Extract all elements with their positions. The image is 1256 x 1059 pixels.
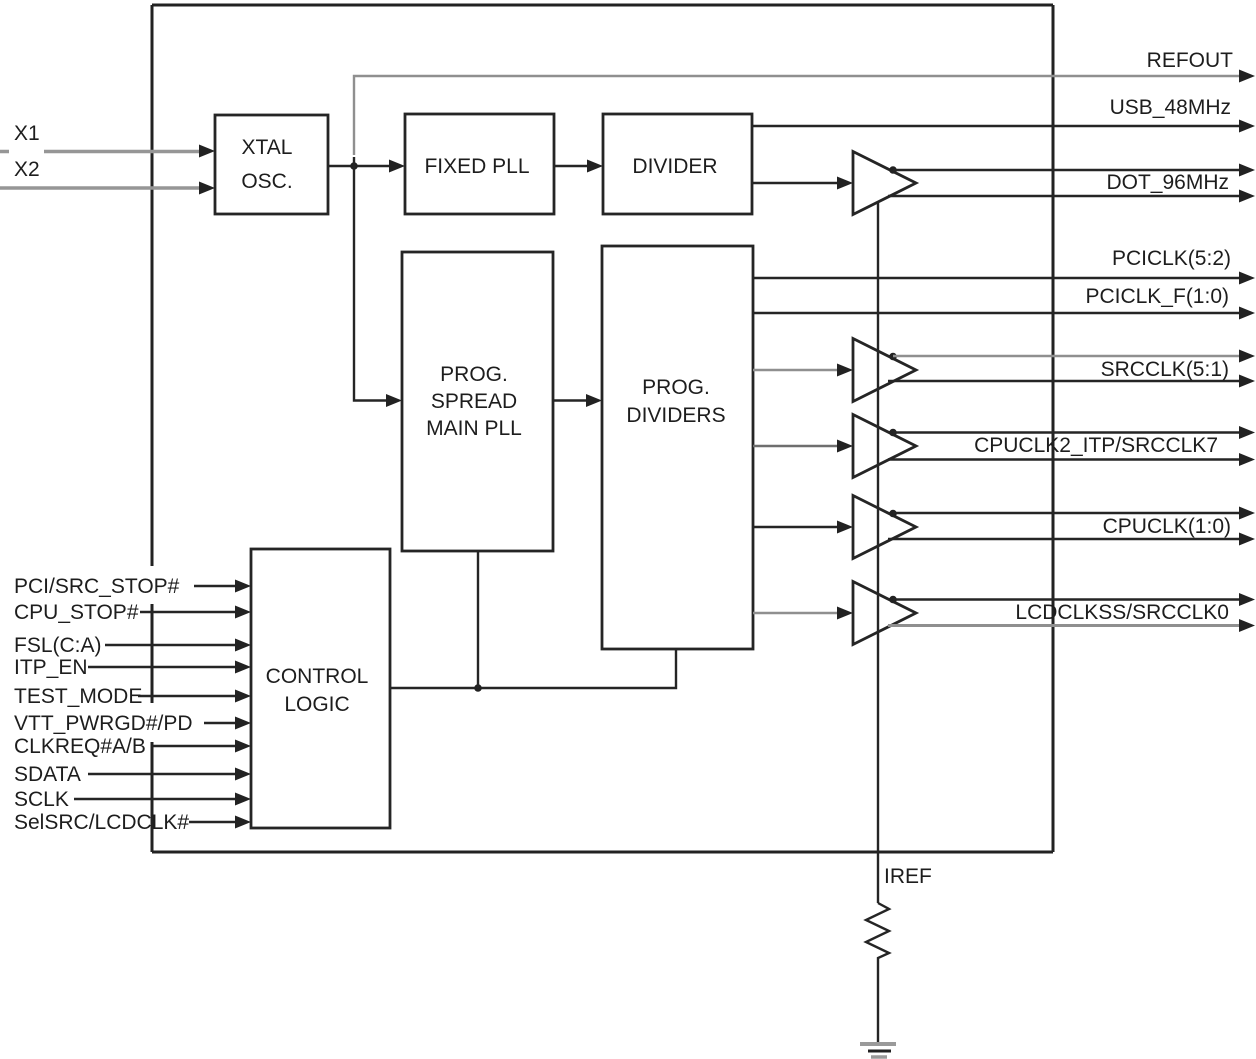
wire TEST_MODE input xyxy=(138,690,251,703)
label PROG SPREAD MAIN PLL xyxy=(426,363,522,440)
buffer U4 CPUCLK xyxy=(853,496,916,559)
wire SRCCLK(5:1) top output (grey) xyxy=(893,350,1255,363)
wire X2 input xyxy=(0,182,215,195)
svg-text:PCICLK_F(1:0): PCICLK_F(1:0) xyxy=(1085,285,1229,308)
svg-text:USB_48MHz: USB_48MHz xyxy=(1110,96,1231,119)
block PROG SPREAD MAIN PLL xyxy=(402,252,553,551)
node dot U2 output tap xyxy=(889,353,897,361)
wire junction to PROG SPREAD MAIN PLL xyxy=(354,157,402,407)
wire FSL(C:A) input xyxy=(105,639,251,652)
svg-text:FSL(C:A): FSL(C:A) xyxy=(14,634,102,657)
wire REFOUT (grey riser + horizontal) xyxy=(354,70,1255,156)
wire CLKREQ#A/B input xyxy=(153,740,251,753)
node dot U1 output tap xyxy=(889,166,897,174)
svg-text:PCI/SRC_STOP#: PCI/SRC_STOP# xyxy=(14,575,180,598)
node junction XTAL output xyxy=(350,162,358,170)
wire FIXED PLL to DIVIDER xyxy=(554,160,603,173)
svg-text:CONTROL: CONTROL xyxy=(266,665,369,688)
wire LCDCLKSS bottom output (grey) xyxy=(888,619,1255,632)
node dot U4 output tap xyxy=(889,510,897,518)
svg-text:SRCCLK(5:1): SRCCLK(5:1) xyxy=(1101,358,1229,381)
block XTAL OSC xyxy=(215,115,328,214)
wire PCICLK_F(1:0) output xyxy=(753,307,1255,320)
svg-text:ITP_EN: ITP_EN xyxy=(14,656,88,679)
buffer U3 CPUCLK2 xyxy=(853,415,916,478)
label PROG DIVIDERS xyxy=(626,376,725,427)
wire CONTROL LOGIC to dividers xyxy=(390,649,676,688)
svg-text:SPREAD: SPREAD xyxy=(431,390,517,413)
wire PCI/SRC_STOP# input xyxy=(194,580,251,593)
svg-text:X2: X2 xyxy=(14,158,40,181)
buffer U5 LCDCLKSS xyxy=(853,582,916,645)
wire CPUCLK2 top output xyxy=(893,426,1255,439)
wire SelSRC/LCDCLK# input xyxy=(189,816,251,829)
wire PROG DIVIDERS to LCDCLKSS buffer xyxy=(753,607,853,620)
svg-text:XTAL: XTAL xyxy=(242,136,293,159)
node junction control feedback xyxy=(474,684,482,692)
wire SRCCLK(5:1) bottom output xyxy=(888,375,1255,388)
svg-text:CPUCLK(1:0): CPUCLK(1:0) xyxy=(1103,515,1231,538)
svg-text:LOGIC: LOGIC xyxy=(284,693,349,716)
svg-text:LCDCLKSS/SRCCLK0: LCDCLKSS/SRCCLK0 xyxy=(1015,601,1229,624)
node dot U5 output tap xyxy=(889,596,897,604)
wire PCICLK(5:2) output xyxy=(753,272,1255,285)
svg-text:PCICLK(5:2): PCICLK(5:2) xyxy=(1112,247,1231,270)
wire DOT_96MHz top output xyxy=(893,164,1255,177)
svg-text:CPUCLK2_ITP/SRCCLK7: CPUCLK2_ITP/SRCCLK7 xyxy=(974,434,1218,457)
svg-text:CLKREQ#A/B: CLKREQ#A/B xyxy=(14,735,146,758)
wire CPUCLK2 bottom output xyxy=(888,453,1255,466)
wire XTAL OSC to FIXED PLL xyxy=(328,160,405,173)
wire CPUCLK(1:0) bottom output xyxy=(888,533,1255,546)
svg-text:REFOUT: REFOUT xyxy=(1147,49,1234,72)
wire PROG DIVIDERS to SRCCLK buffer xyxy=(753,364,853,377)
svg-text:DIVIDER: DIVIDER xyxy=(632,155,717,178)
svg-text:SelSRC/LCDCLK#: SelSRC/LCDCLK# xyxy=(14,811,189,834)
wire DIVIDER to USB_48MHz output xyxy=(752,120,1255,133)
svg-text:IREF: IREF xyxy=(884,865,932,888)
svg-text:OSC.: OSC. xyxy=(241,170,292,193)
block FIXED PLL xyxy=(405,114,554,214)
block DIVIDER xyxy=(603,114,752,214)
wire SDATA input xyxy=(88,768,251,781)
wire junction to PROG SPREAD bottom xyxy=(477,551,479,688)
resistor IREF xyxy=(866,903,889,1042)
label CONTROL LOGIC xyxy=(266,665,369,716)
svg-text:TEST_MODE: TEST_MODE xyxy=(14,685,142,708)
wire CPUCLK(1:0) top output xyxy=(893,507,1255,520)
label XTAL OSC. xyxy=(241,136,292,193)
buffer U1 DOT xyxy=(853,152,916,215)
node dot U3 output tap xyxy=(889,429,897,437)
svg-text:PROG.: PROG. xyxy=(440,363,508,386)
svg-text:X1: X1 xyxy=(14,122,40,145)
svg-text:SCLK: SCLK xyxy=(14,788,69,811)
wire DOT_96MHz bottom output xyxy=(888,190,1255,203)
buffer U2 SRCCLK xyxy=(853,339,916,402)
chip outline bottom edge xyxy=(152,851,1053,854)
svg-text:SDATA: SDATA xyxy=(14,763,81,786)
wire X1 input xyxy=(0,145,215,158)
wire VTT_PWRGD#/PD input xyxy=(204,717,251,730)
block CONTROL LOGIC xyxy=(251,549,390,828)
block PROG DIVIDERS xyxy=(602,246,753,649)
chip outline left edge segments xyxy=(151,5,154,852)
svg-text:PROG.: PROG. xyxy=(642,376,710,399)
svg-text:DIVIDERS: DIVIDERS xyxy=(626,404,725,427)
wire PROG DIVIDERS to CPUCLK buffer xyxy=(753,521,853,534)
svg-text:FIXED PLL: FIXED PLL xyxy=(424,155,529,178)
svg-text:CPU_STOP#: CPU_STOP# xyxy=(14,601,139,624)
chip outline top edge xyxy=(152,4,1053,7)
wire LCDCLKSS top output xyxy=(893,593,1255,606)
wire DIVIDER to DOT buffer xyxy=(752,177,853,190)
svg-text:VTT_PWRGD#/PD: VTT_PWRGD#/PD xyxy=(14,712,193,735)
wire CPU_STOP# input xyxy=(140,606,251,619)
svg-text:DOT_96MHz: DOT_96MHz xyxy=(1106,171,1229,194)
wire PROG SPREAD to PROG DIVIDERS xyxy=(553,394,602,407)
chip outline right edge xyxy=(1052,5,1055,852)
wire ITP_EN input xyxy=(88,661,251,674)
wire PROG DIVIDERS to CPUCLK2 buffer xyxy=(753,440,853,453)
svg-text:MAIN PLL: MAIN PLL xyxy=(426,417,522,440)
wire IREF rail vertical xyxy=(877,203,879,903)
ground xyxy=(860,1044,896,1057)
wire SCLK input xyxy=(74,793,251,806)
